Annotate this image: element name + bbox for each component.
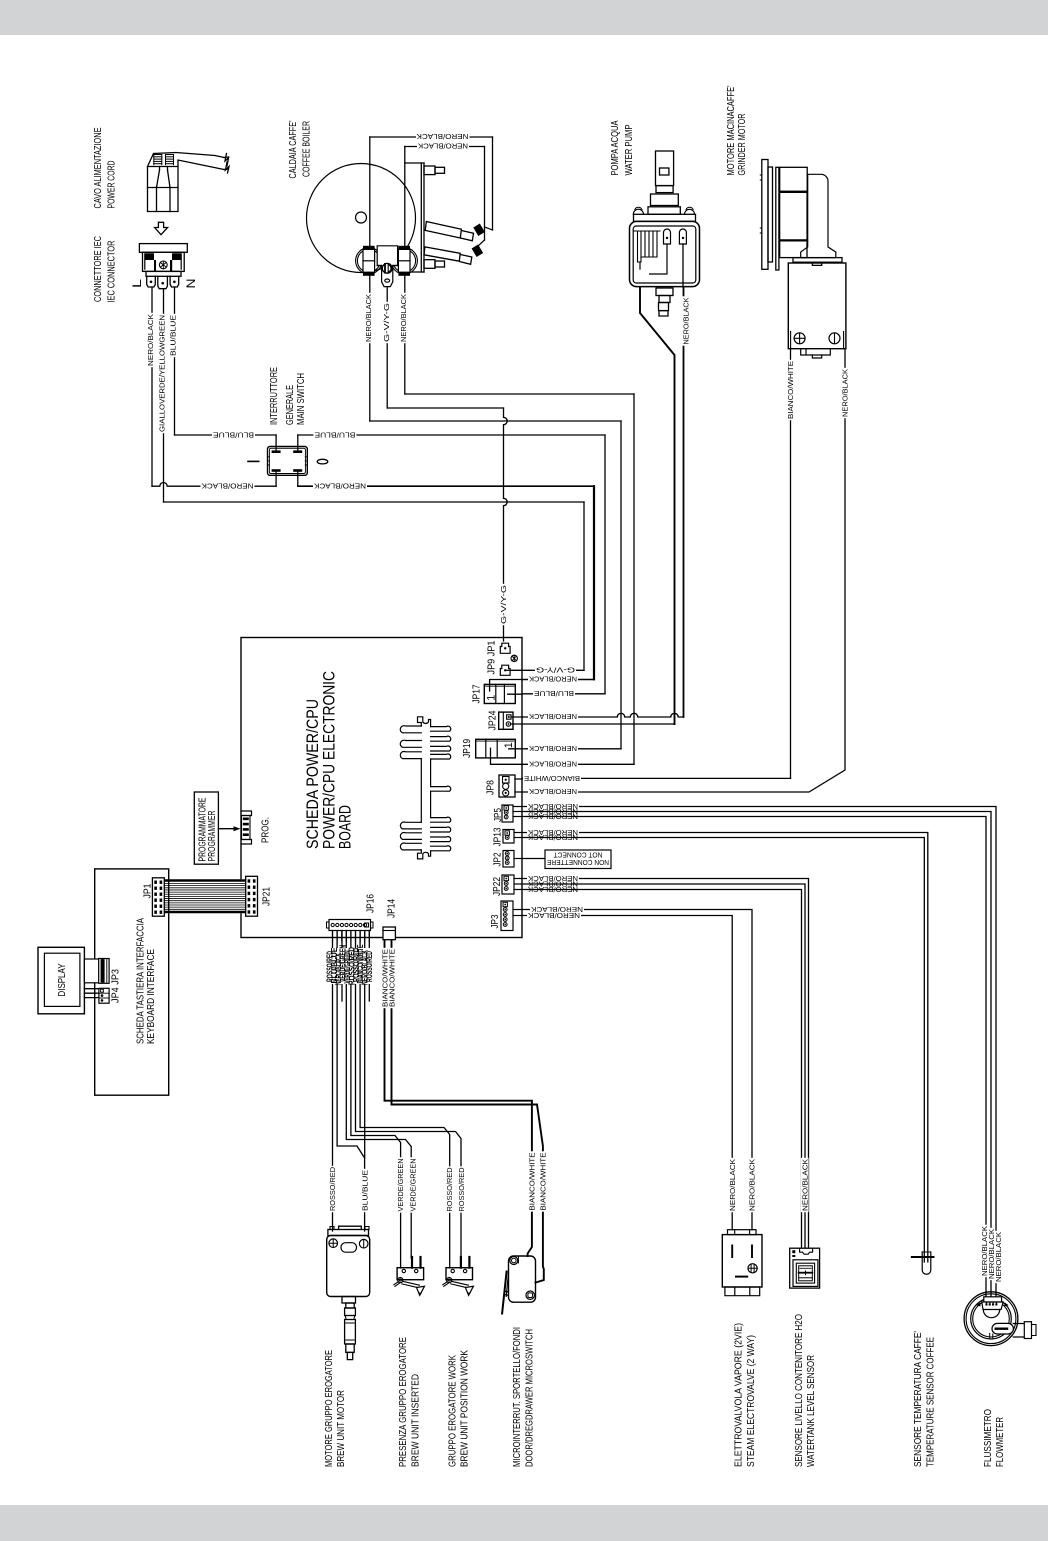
svg-text:BREW UNIT MOTOR: BREW UNIT MOTOR <box>336 1390 347 1467</box>
display <box>38 947 84 1014</box>
svg-text:PROGRAMMER: PROGRAMMER <box>207 811 218 862</box>
connector JP3 <box>501 901 513 931</box>
power cord plug <box>148 153 225 167</box>
power/CPU electronic board SCHEDA POWER/CPU <box>241 638 522 938</box>
svg-text:JP5: JP5 <box>493 808 504 822</box>
wire pump terminal 1 to JP24 pin2 <box>640 287 675 724</box>
svg-text:NERO/BLACK: NERO/BLACK <box>529 760 577 769</box>
wire JP16 stub <box>341 930 343 1001</box>
svg-text:JP3: JP3 <box>490 914 501 928</box>
svg-text:KEYBOARD INTERFACE: KEYBOARD INTERFACE <box>146 949 157 1044</box>
svg-text:G-V/Y-G: G-V/Y-G <box>382 303 391 342</box>
svg-text:BLU/BLUE: BLU/BLUE <box>169 315 178 356</box>
svg-text:POMPA ACQUA: POMPA ACQUA <box>610 120 621 175</box>
wire main switch terminals <box>275 435 277 450</box>
label NERO/BLACK flow1 <box>980 1225 988 1277</box>
label ROSSO/RED motor <box>329 1166 337 1212</box>
label VERDE/GREEN 1 <box>397 1157 405 1212</box>
svg-text:IEC CONNECTOR: IEC CONNECTOR <box>107 241 118 303</box>
wire JP13-1 to temperature sensor <box>522 833 928 1263</box>
label BLU/BLUE switch left <box>212 431 255 438</box>
label NERO/BLACK JP8-3 <box>528 788 578 795</box>
wire NERO/BLACK JP5-3 to flowmeter <box>522 817 986 1297</box>
label BIANCO/WHITE JP14-2 <box>388 948 396 1008</box>
wire BIANCO/WHITE JP14-2 to door microswitch <box>392 940 544 1283</box>
top gray bar <box>0 0 1048 35</box>
switch symbol O <box>317 459 328 464</box>
wire NERO/BLACK JP3-1 to valve <box>522 910 752 1230</box>
brew motor shaft <box>342 1297 356 1304</box>
label NERO/BLACK JP3-1 <box>530 906 584 913</box>
ribbon cable JP1-JP21 <box>164 879 245 913</box>
label G-V/Y-G boiler <box>382 302 390 343</box>
label G-V/Y-G main <box>500 584 508 625</box>
svg-text:FLUSSIMETRO: FLUSSIMETRO <box>983 1409 994 1467</box>
svg-text:MOTORE MACINACAFFE': MOTORE MACINACAFFE' <box>726 85 737 175</box>
boiler thermofuse lower <box>424 247 460 261</box>
svg-text:JP13: JP13 <box>493 827 504 846</box>
label BIANCO/WHITE JP8-1 <box>523 775 581 782</box>
svg-text:NOT CONNECT: NOT CONNECT <box>553 850 602 859</box>
wire JP16 pin9 stub <box>368 930 370 1001</box>
connector JP13 <box>503 830 514 844</box>
earth symbol on board <box>511 655 517 661</box>
wire NERO/BLACK boiler left terminal top loop <box>369 137 371 247</box>
label NERO/BLACK switch right <box>313 483 367 490</box>
arrow programmer to PROG <box>218 828 236 830</box>
svg-text:NERO/BLACK: NERO/BLACK <box>682 297 691 344</box>
svg-text:PROG.: PROG. <box>260 817 271 843</box>
flowmeter connector <box>984 1297 1002 1302</box>
svg-text:1: 1 <box>485 695 497 701</box>
grinder neck <box>801 174 836 257</box>
label NERO/BLACK flow2 <box>987 1228 995 1280</box>
svg-text:GRINDER MOTOR: GRINDER MOTOR <box>737 114 748 176</box>
IEC connector <box>139 244 187 253</box>
svg-text:NERO/BLACK: NERO/BLACK <box>529 744 577 753</box>
svg-text:GIALLOVERDE/YELLOWGREEN: GIALLOVERDE/YELLOWGREEN <box>158 315 167 432</box>
roller lever <box>398 1278 403 1283</box>
connector JP19 <box>476 739 516 758</box>
svg-text:DOOR/DREGDRAWER MICROSWITCH: DOOR/DREGDRAWER MICROSWITCH <box>524 1329 535 1467</box>
svg-text:TEMPERATURE SENSOR COFFEE: TEMPERATURE SENSOR COFFEE <box>925 1337 936 1467</box>
boiler earth tab <box>377 246 397 287</box>
svg-text:BIANCO/WHITE: BIANCO/WHITE <box>527 1152 536 1210</box>
PROG connector <box>241 811 252 844</box>
coffee boiler CALDAIA <box>307 164 416 273</box>
label NERO/BLACK JP19-2 <box>528 761 578 768</box>
svg-text:BIANCO/WHITE: BIANCO/WHITE <box>524 774 580 783</box>
label NERO/BLACK wire L <box>147 313 155 367</box>
wire ROSSO/RED JP16 to microswitch2 a <box>360 930 450 1268</box>
svg-text:PRESENZA GRUPPO EROGATORE: PRESENZA GRUPPO EROGATORE <box>398 1337 409 1467</box>
svg-text:1: 1 <box>503 742 515 748</box>
flowmeter pill <box>992 1323 1013 1334</box>
svg-text:MICROINTERRUT. SPORTELLO/FONDI: MICROINTERRUT. SPORTELLO/FONDI <box>512 1327 523 1467</box>
label NERO/BLACK boiler 1 <box>416 133 470 140</box>
wire NERO/BLACK grinder to JP8 pin3 <box>522 349 845 792</box>
flowmeter FLUSSIMETRO <box>964 1292 1018 1346</box>
svg-text:CAVO ALIMENTAZIONE: CAVO ALIMENTAZIONE <box>93 127 104 208</box>
wire JP16 pin8 <box>364 930 366 1158</box>
wire NERO/BLACK JP3-2 to valve <box>522 916 732 1230</box>
svg-text:NERO/BLACK: NERO/BLACK <box>314 482 366 491</box>
wire JP22-1 to level sensor <box>522 879 809 1249</box>
svg-text:BLU/BLUE: BLU/BLUE <box>213 430 254 439</box>
svg-text:G-V/Y-G: G-V/Y-G <box>536 666 575 675</box>
svg-text:BLU/BLUE: BLU/BLUE <box>361 1170 370 1211</box>
connector JP22 <box>502 875 514 894</box>
connector JP1 <box>500 643 510 653</box>
svg-text:ROSSO/RED: ROSSO/RED <box>445 1168 454 1212</box>
connector JP2 <box>503 851 514 868</box>
microswitch PRESENZA GRUPPO EROGATORE <box>397 1268 424 1280</box>
wire NERO/BLACK JP5-1 to flowmeter <box>522 807 996 1297</box>
main switch INTERRUTTORE GENERALE <box>268 447 308 476</box>
label NERO/BLACK pump <box>682 296 690 345</box>
svg-text:SENSORE TEMPERATURA CAFFE': SENSORE TEMPERATURA CAFFE' <box>913 1331 924 1467</box>
svg-text:BIANCO/WHITE: BIANCO/WHITE <box>538 1152 547 1210</box>
label BLU/BLUE wire N <box>169 314 177 357</box>
svg-text:NERO/BLACK: NERO/BLACK <box>416 132 468 141</box>
wire NERO/BLACK JP5-2 to flowmeter <box>522 812 991 1297</box>
keyboard interface board SCHEDA TASTIERA <box>95 869 169 1095</box>
connector JP1 keyboard <box>152 878 164 916</box>
label NERO/BLACK switch left <box>201 483 255 490</box>
label BLU/BLUE switch right <box>313 431 356 438</box>
flowmeter spout <box>1013 1324 1024 1338</box>
wire JP2 to NON CONNETTERE box <box>522 858 545 860</box>
svg-text:JP17: JP17 <box>471 685 482 704</box>
svg-text:POWER CORD: POWER CORD <box>107 161 118 209</box>
wire NERO/BLACK from IEC pin L <box>151 287 153 486</box>
switch symbol I <box>248 460 259 462</box>
wire JP13-2 to temperature sensor <box>522 838 924 1263</box>
grinder motor MOTORE MACINACAFFE <box>762 160 768 270</box>
label NERO/BLACK level <box>801 1158 809 1212</box>
svg-text:L: L <box>130 279 144 288</box>
svg-text:NERO/BLACK: NERO/BLACK <box>994 1232 1003 1282</box>
label NERO/BLACK valve1 <box>729 1158 737 1212</box>
wire BIANCO/WHITE grinder to JP8 pin1 <box>790 349 792 778</box>
svg-text:ROSSO/RED: ROSSO/RED <box>365 951 374 982</box>
svg-text:JP1: JP1 <box>142 884 153 899</box>
label GIALLOVERDE/YELLOWGREEN <box>158 314 166 433</box>
arrow plug to connector <box>155 222 168 234</box>
wire ROSSO/RED JP16 to microswitch2 b <box>356 930 462 1258</box>
door microswitch lever <box>502 1272 507 1314</box>
svg-text:NERO/BLACK: NERO/BLACK <box>364 294 373 342</box>
svg-text:BREW UNIT POSITION WORK: BREW UNIT POSITION WORK <box>460 1350 471 1467</box>
boiler thermofuse upper <box>425 222 461 239</box>
svg-text:NERO/BLACK: NERO/BLACK <box>528 885 578 894</box>
label VERDE/GREEN 2 <box>409 1157 417 1212</box>
label G-V/Y-G JP9 <box>535 667 576 674</box>
svg-text:INTERRUTTORE: INTERRUTTORE <box>269 367 280 425</box>
svg-text:ROSSO/RED: ROSSO/RED <box>457 1168 466 1212</box>
wire JP22-3 to level sensor <box>522 890 802 1249</box>
wire NERO/BLACK boiler right terminal top loop <box>404 147 406 247</box>
label NERO/BLACK JP19-1 <box>528 745 578 752</box>
svg-text:VERDE/GREEN: VERDE/GREEN <box>396 1159 405 1212</box>
svg-text:N: N <box>184 279 198 289</box>
svg-text:JP22: JP22 <box>492 877 503 896</box>
svg-text:ELETTROVALVOLA VAPORE (2VIE): ELETTROVALVOLA VAPORE (2VIE) <box>734 1323 745 1467</box>
wire display to JP4 <box>84 988 99 990</box>
grinder motor body <box>788 263 846 349</box>
wire NERO/BLACK boiler right terminal to JP19 pin2 <box>404 276 406 395</box>
label ROSSO/RED work1 <box>446 1166 454 1212</box>
label NERO/BLACK JP24 <box>528 713 578 720</box>
label BLU/BLUE motor <box>361 1169 369 1212</box>
svg-text:GENERALE: GENERALE <box>285 385 296 425</box>
svg-text:JP19: JP19 <box>462 739 473 758</box>
label NERO/BLACK valve2 <box>748 1158 756 1212</box>
svg-text:FLOWMETER: FLOWMETER <box>995 1417 1006 1467</box>
label NERO/BLACK JP3-2 <box>527 912 581 919</box>
wire JP22-2 to level sensor <box>522 884 805 1248</box>
connector JP14 <box>383 927 395 940</box>
svg-text:JP21: JP21 <box>261 887 272 906</box>
svg-text:JP9 JP1: JP9 JP1 <box>487 641 498 675</box>
boiler earth symbol <box>382 263 392 273</box>
svg-text:BLU/BLUE: BLU/BLUE <box>314 430 355 439</box>
brew unit motor MOTORE GRUPPO EROGATORE <box>339 1226 362 1229</box>
microswitch GRUPPO EROGATORE WORK <box>446 1268 473 1280</box>
watertank level sensor SENSORE LIVELLO <box>790 1248 820 1288</box>
JP16 wire colour labels cluster <box>327 948 372 984</box>
wire NERO/BLACK pump terminal 2 to JP24 pin1 <box>683 287 685 717</box>
svg-text:JP8: JP8 <box>486 780 497 795</box>
svg-text:BREW UNIT INSERTED: BREW UNIT INSERTED <box>410 1374 421 1467</box>
svg-text:WATER PUMP: WATER PUMP <box>624 124 635 175</box>
wire BIANCO/WHITE JP14-1 to door microswitch <box>385 940 532 1256</box>
svg-text:NERO/BLACK: NERO/BLACK <box>801 1159 810 1211</box>
wire VERDE/GREEN JP16 to microswitch1 b <box>346 930 411 1258</box>
svg-text:JP14: JP14 <box>386 899 397 918</box>
label NERO/BLACK boiler left <box>365 293 373 343</box>
svg-text:G-V/Y-G: G-V/Y-G <box>499 585 508 624</box>
water pump POMPA ACQUA <box>656 151 674 186</box>
svg-text:MOTORE GRUPPO EROGATORE: MOTORE GRUPPO EROGATORE <box>324 1350 335 1467</box>
svg-text:BOARD: BOARD <box>336 805 355 849</box>
wire NERO/BLACK switch to board <box>298 485 594 487</box>
svg-text:BIANCO/WHITE: BIANCO/WHITE <box>387 949 396 1007</box>
svg-text:GRUPPO EROGATORE WORK: GRUPPO EROGATORE WORK <box>448 1355 459 1467</box>
wire BLU/BLUE from IEC pin N <box>174 287 176 435</box>
roller lever <box>447 1278 452 1283</box>
label NERO/BLACK JP17-1 <box>528 676 578 683</box>
svg-text:NERO/BLACK: NERO/BLACK <box>399 294 408 342</box>
svg-text:NERO/BLACK: NERO/BLACK <box>418 142 468 151</box>
bottom gray bar <box>0 1505 1048 1541</box>
label BIANCO/WHITE door1 <box>528 1151 536 1211</box>
label NERO/BLACK boiler right <box>400 293 408 343</box>
svg-text:ROSSO/RED: ROSSO/RED <box>328 1167 337 1211</box>
boiler heater terminal right <box>391 248 417 274</box>
svg-text:COFFEE BOILER: COFFEE BOILER <box>301 121 312 177</box>
svg-text:CONNETTORE IEC: CONNETTORE IEC <box>93 236 104 302</box>
wire BLU/BLUE JP16 to brew motor - <box>337 930 365 1231</box>
svg-text:WATERTANK LEVEL SENSOR: WATERTANK LEVEL SENSOR <box>806 1355 817 1467</box>
svg-text:NERO/BLACK: NERO/BLACK <box>529 787 577 796</box>
wire ROSSO/RED JP16 to brew motor + <box>332 930 334 1231</box>
label NERO/BLACK boiler 2 <box>417 143 469 150</box>
label BIANCO/WHITE JP14-1 <box>381 948 389 1008</box>
connector JP16 <box>329 920 371 931</box>
svg-text:SCHEDA TASTIERA INTERFACCIA: SCHEDA TASTIERA INTERFACCIA <box>136 918 147 1044</box>
svg-text:JP16: JP16 <box>365 894 376 913</box>
heatsink on CPU board <box>400 726 421 733</box>
svg-text:NERO/BLACK: NERO/BLACK <box>728 1159 737 1211</box>
svg-text:CALDAIA CAFFE': CALDAIA CAFFE' <box>288 120 299 178</box>
svg-text:NERO/BLACK: NERO/BLACK <box>528 833 578 842</box>
connector JP5 <box>502 805 513 822</box>
svg-text:JP2: JP2 <box>493 853 504 867</box>
svg-text:VERDE/GREEN: VERDE/GREEN <box>409 1159 418 1212</box>
label NERO/BLACK grinder <box>841 368 849 418</box>
svg-text:NERO/BLACK: NERO/BLACK <box>201 482 253 491</box>
svg-text:JP4 JP3: JP4 JP3 <box>110 969 121 1003</box>
svg-text:STEAM ELECTROVALVE (2 WAY): STEAM ELECTROVALVE (2 WAY) <box>746 1335 757 1467</box>
svg-text:NERO/BLACK: NERO/BLACK <box>529 675 577 684</box>
connector JP8 <box>499 775 515 797</box>
svg-text:NERO/BLACK: NERO/BLACK <box>841 369 850 417</box>
temperature sensor SENSORE TEMPERATURA <box>912 1256 934 1258</box>
svg-text:NERO/BLACK: NERO/BLACK <box>146 314 155 366</box>
connector JP9 <box>500 665 510 675</box>
label ROSSO/RED work2 <box>458 1166 466 1212</box>
wire NERO/BLACK boiler left terminal to JP19 pin1 <box>369 276 371 422</box>
terminal prongs <box>460 1257 462 1268</box>
connector JP17 <box>484 684 515 703</box>
svg-text:SENSORE LIVELLO CONTENITORE H2: SENSORE LIVELLO CONTENITORE H2O <box>794 1314 805 1467</box>
display connector boxes JP3 JP4 <box>84 959 99 983</box>
wire BLU/BLUE switch to JP17 <box>298 434 605 436</box>
connector JP21 <box>246 876 258 916</box>
programmer box PROGRAMMATORE <box>194 792 218 864</box>
svg-text:NERO/BLACK: NERO/BLACK <box>528 911 580 920</box>
wire G-V/Y-G boiler earth tab to JP1 <box>386 287 388 408</box>
connector JP24 <box>499 712 513 729</box>
label NERO/BLACK JP13-1 <box>527 829 579 836</box>
svg-text:BIANCO/WHITE: BIANCO/WHITE <box>786 361 795 419</box>
svg-text:BLU/BLUE: BLU/BLUE <box>534 689 574 698</box>
svg-text:JP24: JP24 <box>488 710 499 730</box>
label NERO/BLACK JP5-1 <box>527 803 579 810</box>
wire VERDE/GREEN JP16 to microswitch1 a <box>351 930 401 1268</box>
steam electrovalve ELETTROVALVOLA VAPORE <box>728 1230 757 1235</box>
door microswitch MICROINTERRUT. SPORTELLO/FONDI <box>509 1256 536 1302</box>
svg-text:DISPLAY: DISPLAY <box>57 963 68 996</box>
svg-text:NERO/BLACK: NERO/BLACK <box>528 812 578 821</box>
boiler heater terminal left <box>356 248 382 274</box>
pump outlet <box>656 288 673 296</box>
label BIANCO/WHITE grinder <box>787 360 795 420</box>
boiler pins <box>424 166 435 175</box>
label NERO/BLACK JP22-1 <box>527 875 579 882</box>
label BLU/BLUE JP17-3 <box>533 690 575 697</box>
svg-text:NERO/BLACK: NERO/BLACK <box>529 712 577 721</box>
NON CONNETTERE / NOT CONNECT box <box>545 850 611 869</box>
label NERO/BLACK flow3 <box>994 1231 1002 1283</box>
label BIANCO/WHITE door2 <box>539 1151 547 1211</box>
svg-text:NERO/BLACK: NERO/BLACK <box>748 1159 757 1211</box>
wire GIALLOVERDE/YELLOWGREEN from IEC earth pin <box>163 289 165 502</box>
svg-text:MAIN SWITCH: MAIN SWITCH <box>296 373 307 425</box>
terminal prongs <box>411 1257 413 1268</box>
